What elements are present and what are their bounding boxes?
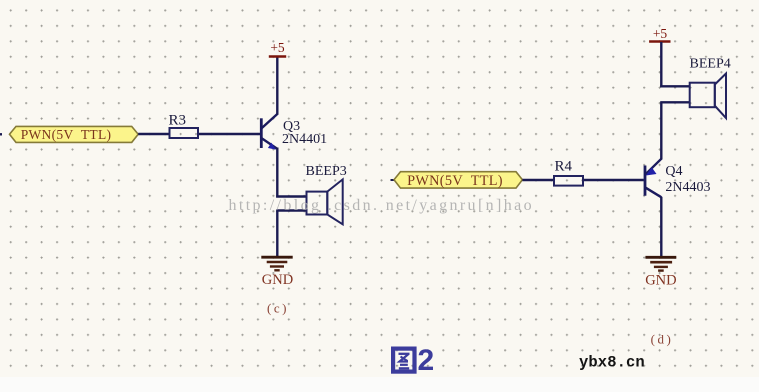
svg-text:Q4: Q4: [665, 164, 682, 179]
svg-text:BEEP4: BEEP4: [690, 57, 731, 72]
svg-text:GND: GND: [645, 273, 676, 289]
svg-text:+5: +5: [653, 26, 668, 41]
svg-text:+5: +5: [270, 40, 285, 55]
svg-text:GND: GND: [262, 272, 293, 288]
svg-text:http://blog .csdn. net/yagnru[: http://blog .csdn. net/yagnru[n]hao: [229, 197, 534, 214]
svg-text:R4: R4: [555, 159, 573, 175]
svg-text:R3: R3: [169, 112, 187, 128]
svg-text:PWN(5V TTL): PWN(5V TTL): [407, 173, 503, 189]
svg-text:BEEP3: BEEP3: [306, 164, 347, 179]
svg-text:ybx8.cn: ybx8.cn: [579, 354, 645, 372]
svg-text:(d): (d): [651, 332, 674, 347]
svg-text:2N4403: 2N4403: [665, 180, 710, 195]
svg-text:2: 2: [418, 344, 435, 377]
svg-text:2N4401: 2N4401: [282, 132, 327, 147]
svg-text:PWN(5V TTL): PWN(5V TTL): [21, 127, 112, 142]
svg-text:(c): (c): [267, 301, 289, 316]
